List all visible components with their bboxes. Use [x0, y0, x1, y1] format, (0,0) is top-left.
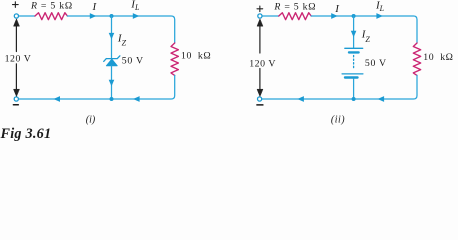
wire zener branch lower (i) — [111, 66, 113, 99]
wire top middle (ii) — [311, 16, 417, 43]
svg-text:10 kΩ: 10 kΩ — [181, 51, 211, 62]
node junction bottom (i) — [110, 97, 114, 101]
current arrow IZ (i) — [109, 33, 115, 40]
wire top middle (i) — [67, 16, 174, 43]
resistor 10 kOhm (i) — [171, 43, 178, 75]
node junction top (i) — [110, 14, 114, 18]
svg-text:10 kΩ: 10 kΩ — [423, 52, 453, 63]
current arrow I (ii) — [331, 13, 338, 19]
current return arrow left 2 (i) — [133, 96, 140, 102]
source arrow up (ii) — [257, 19, 263, 96]
svg-text:50 V: 50 V — [122, 55, 144, 66]
svg-text:I: I — [92, 1, 98, 13]
svg-text:120 V: 120 V — [5, 53, 32, 64]
svg-text:R = 5 kΩ: R = 5 kΩ — [273, 1, 316, 12]
node junction bottom (ii) — [352, 97, 356, 101]
label minus (ii) — [257, 104, 263, 106]
svg-text:I: I — [334, 3, 340, 15]
wire battery branch lower (ii) — [353, 79, 355, 99]
wire right lower (i) — [19, 75, 175, 99]
svg-text:50 V: 50 V — [365, 58, 387, 69]
current return arrow left 2 (ii) — [378, 96, 385, 102]
wire top-left segment (ii) — [262, 15, 279, 17]
terminal node bottom-left (ii) — [258, 97, 262, 101]
node junction top (ii) — [352, 14, 356, 18]
wire right lower (ii) — [262, 75, 417, 99]
terminal node bottom-left (i) — [14, 97, 18, 101]
wire battery branch upper (ii) — [353, 16, 355, 48]
current arrow I (i) — [90, 13, 97, 19]
svg-text:IL: IL — [375, 0, 385, 13]
resistor R = 5 kOhm (ii) — [279, 13, 311, 20]
svg-text:IL: IL — [130, 0, 140, 12]
label plus (ii) — [257, 6, 263, 12]
source arrow up (i) — [14, 19, 20, 96]
current arrow IL (ii) — [376, 13, 383, 19]
current return arrow left 1 (i) — [53, 96, 60, 102]
label plus (i) — [13, 2, 19, 8]
terminal node top-left (i) — [14, 14, 18, 18]
svg-text:(ii): (ii) — [331, 114, 345, 125]
svg-text:Fig 3.61: Fig 3.61 — [0, 126, 51, 142]
current arrow zener lower (i) — [109, 80, 115, 87]
current arrow IZ (ii) — [351, 31, 357, 38]
svg-text:IZ: IZ — [117, 32, 127, 47]
terminal node top-left (ii) — [258, 14, 262, 18]
current return arrow left 1 (ii) — [297, 96, 304, 102]
battery 50 V (ii) — [342, 48, 363, 77]
current arrow IL (i) — [133, 13, 140, 19]
zener diode 50 V (i) — [104, 56, 120, 66]
resistor R = 5 kOhm (i) — [35, 13, 67, 20]
wire top-left segment (i) — [19, 15, 35, 17]
svg-text:(i): (i) — [86, 114, 96, 125]
wire zener branch upper (i) — [111, 16, 113, 58]
svg-text:IZ: IZ — [361, 29, 371, 44]
label minus (i) — [13, 104, 18, 106]
svg-text:R = 5 kΩ: R = 5 kΩ — [30, 1, 73, 12]
resistor 10 kOhm (ii) — [413, 43, 420, 75]
svg-text:120 V: 120 V — [249, 58, 276, 69]
